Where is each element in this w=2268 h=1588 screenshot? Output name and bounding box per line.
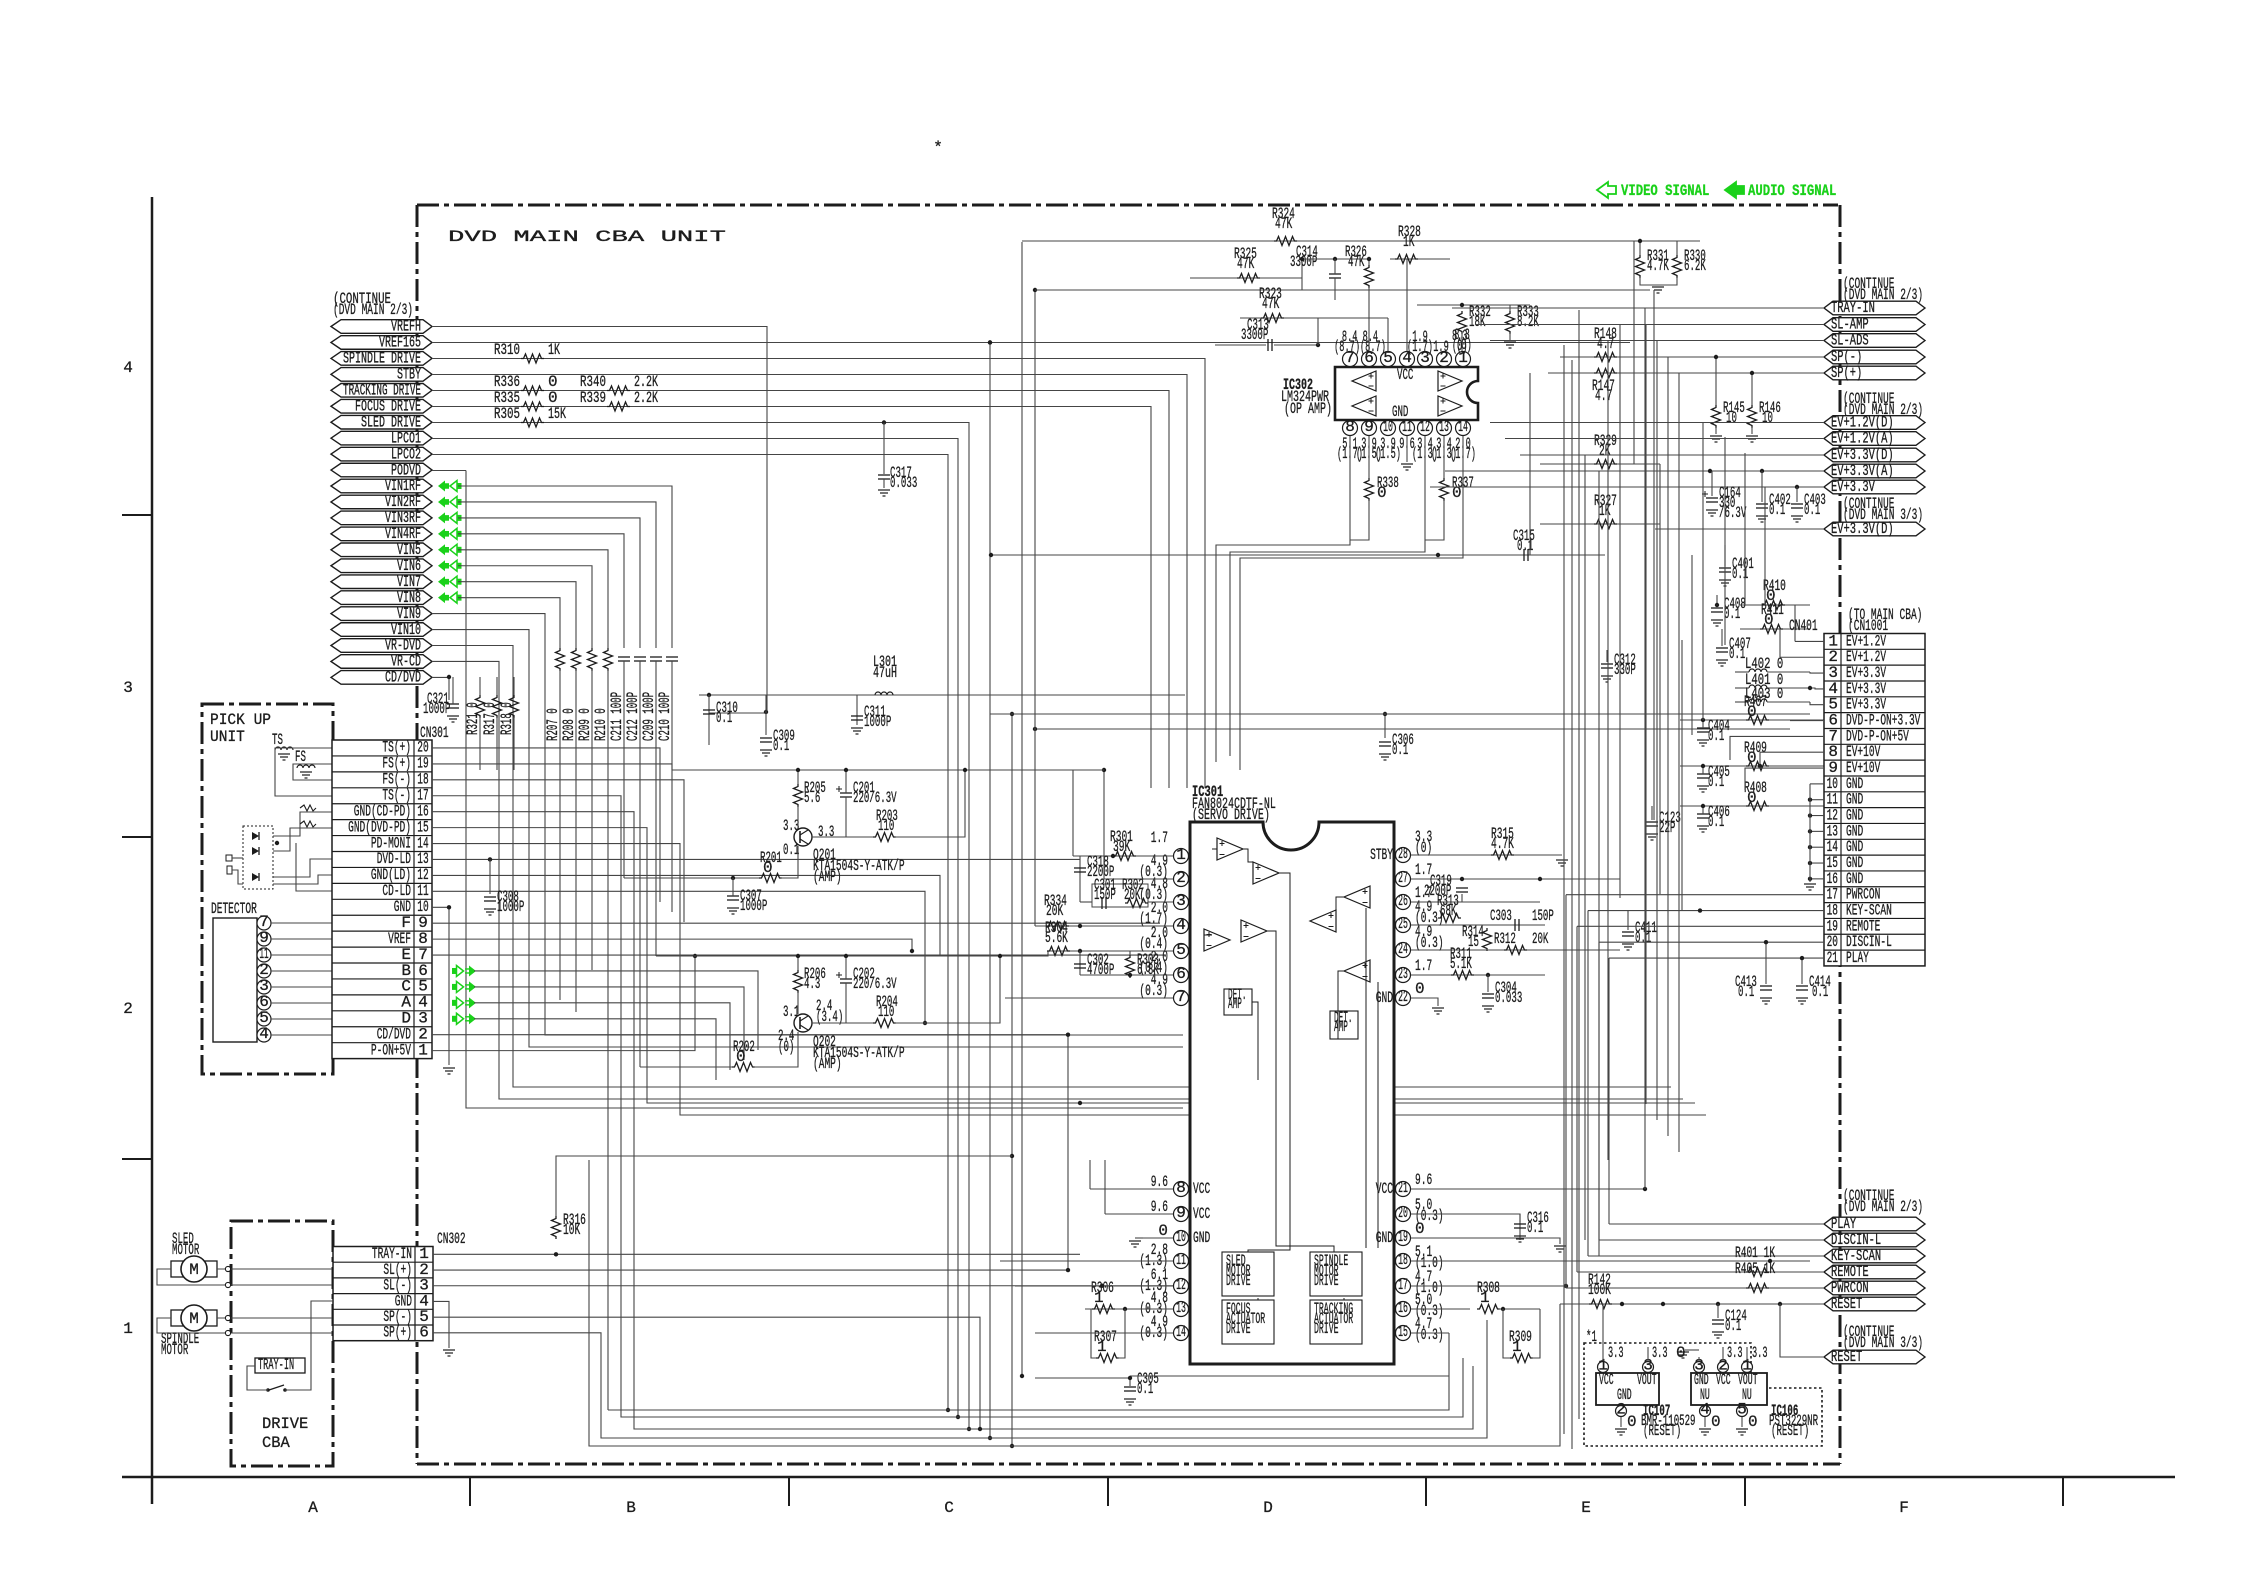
wire pin9 [1105,1213,1173,1215]
node flag PWRCON [1824,1281,1925,1295]
wire rbus-x1703 [1702,422,1704,720]
node flag VIN9 [331,607,432,621]
IC301 pin 26 [1396,895,1411,910]
wire cn401-18 [1588,910,1824,912]
wire pin10 [1143,1237,1173,1239]
IC301 op-amp C [1204,929,1230,951]
wire C316-v [1519,1214,1521,1222]
IC301 pin 22 [1396,991,1411,1006]
frame row tick 4/3 [122,514,152,516]
svg-text:8: 8 [1345,418,1355,436]
svg-text:DVD MAIN CBA UNIT: DVD MAIN CBA UNIT [448,228,726,246]
symbol green arrows CN301 row A [452,1000,457,1006]
wire L401-r [1767,687,1810,689]
wire R204-out [895,956,1000,1023]
IC302 op-amp 1 [1352,371,1376,391]
node junction [1078,949,1082,953]
capacitor C202 220/6.3V [840,978,852,980]
wire pin15 [1411,1332,1449,1334]
IC301 pin 6 [1174,968,1189,983]
node flag SL-AMP [1824,318,1925,332]
svg-text:R405 1K: R405 1K [1735,1260,1775,1278]
wire CN301-13 [432,858,1080,860]
wire R205-up [797,770,799,784]
node junction [1066,1268,1070,1272]
op-amp IC106 PST3229NR body [1691,1373,1767,1405]
node flag RESET (2) [1824,1350,1925,1364]
svg-text:TRAY-IN: TRAY-IN [1831,299,1875,317]
wire CN302-gnd [433,1301,449,1348]
wire R317-up [496,677,498,695]
svg-text:R305: R305 [494,405,520,423]
wire ic106-p1up [1746,1347,1748,1361]
wire SL-ADS-row [1490,340,1824,342]
svg-text:0.033: 0.033 [1495,989,1522,1007]
detector pin 3 [257,980,271,994]
wire cn401-gnd15 [1810,862,1824,864]
svg-text:R318 0: R318 0 [498,702,516,735]
svg-text:1000P: 1000P [423,700,450,718]
wire C305-v [1129,1378,1131,1386]
wire DISCIN-row [1599,1239,1824,1241]
wire highway-1679 [1678,373,1680,1152]
switch TRAY-IN [255,1358,305,1373]
wire CN301-7 [432,954,1165,956]
node flag VIN8 [331,591,432,605]
node flag VR-CD [331,655,432,669]
wire R321-dn [479,717,481,770]
wire R410-row [1740,604,1810,606]
svg-text:12: 12 [1176,1276,1186,1294]
svg-text:6.8K: 6.8K [1137,961,1159,979]
wire R202-out [754,1032,798,1067]
wire C209-cont [655,661,657,956]
wire cn401-gnd12 [1810,815,1824,817]
node junction [1486,973,1490,977]
wire FS-loop [293,764,332,780]
svg-text:4.7: 4.7 [1597,335,1614,353]
wire cn401-gnd13 [1810,830,1824,832]
svg-text:2K: 2K [1599,442,1611,460]
node junction [1750,371,1754,375]
node junction [1708,469,1712,473]
svg-text:0.1: 0.1 [1804,501,1820,519]
wire sled-plus [217,1268,332,1270]
node junction [707,693,711,697]
wire C307-up [732,878,734,896]
wire cn401-1 [1795,640,1824,642]
wire pin8-v [1089,1160,1091,1189]
node junction [998,954,1002,958]
IC302 pin 10 [1381,421,1396,436]
svg-text:1: 1 [1176,846,1186,864]
wire VREFH [432,327,767,714]
node junction [1808,845,1812,849]
svg-text:10K: 10K [563,1221,580,1239]
wire C302-v [1079,951,1081,975]
wire VR-DVD [432,646,1671,1088]
svg-text:(DVD MAIN 2/3): (DVD MAIN 2/3) [1843,1198,1923,1216]
svg-text:17: 17 [1398,1276,1408,1294]
IC301 pin 19 [1396,1231,1411,1246]
wire VR-CD [432,661,1683,1099]
svg-text:14: 14 [1176,1323,1186,1341]
wire p14-dn [1240,436,1463,770]
svg-text:EV+3.3V: EV+3.3V [1831,478,1875,496]
wire pin5 [1048,950,1173,952]
svg-text:20: 20 [1398,1204,1408,1222]
wire C304-v [1487,975,1489,992]
resistor R339 2.2K [607,402,630,411]
IC302 pin 11 [1400,421,1415,436]
wire EV33A-row [1445,470,1824,472]
wire C405-up [1702,766,1704,774]
node junction [1123,1307,1127,1311]
resistor R333 8.2K [1506,311,1515,334]
node flag VIN7 [331,575,432,589]
wire C404-up [1702,720,1704,728]
wire pin6 [1080,974,1173,976]
svg-text:5: 5 [1737,1401,1747,1419]
svg-text:3300P: 3300P [1241,326,1268,344]
node junction [1760,469,1764,473]
wire cn401-8 [1760,752,1824,766]
wire VIN9 [432,614,1183,1035]
node junction [266,1388,270,1392]
wire L403-r [1767,701,1810,703]
node junction [1808,798,1812,802]
wire toprow-ext [1073,769,1104,771]
wire det-3-stub [256,986,258,988]
wire C314-up [1334,259,1336,274]
svg-text:28: 28 [1398,845,1408,863]
svg-text:21: 21 [1398,1179,1408,1197]
node flag DISCIN-L [1824,1233,1925,1247]
resistor R310 1K [521,354,544,363]
svg-text:220/6.3V: 220/6.3V [853,789,897,807]
svg-text:0.1: 0.1 [1137,1380,1153,1398]
node junction [796,768,800,772]
IC301 tracking actuator drive block [1310,1300,1362,1344]
symbol green arrows VIN6 [438,560,449,571]
svg-text:6.2K: 6.2K [1684,257,1706,275]
symbol green arrows CN301 row C [452,984,457,990]
svg-text:0.1: 0.1 [1729,645,1745,663]
node junction [1661,1302,1665,1306]
resistor R204 110 [873,1019,896,1028]
wire rbus-x1645 [1644,308,1646,1189]
node flag TRACKING DRIVE [331,384,432,398]
svg-text:2: 2 [1616,1401,1626,1419]
node junction [978,1427,982,1431]
frame column tick 2 [788,1477,790,1506]
IC301 pin 20 [1396,1207,1411,1222]
wire VIN5 bottom U-loop [608,1333,1449,1410]
svg-text:5.6: 5.6 [804,789,820,807]
svg-text:0: 0 [1415,980,1425,998]
svg-text:4.7: 4.7 [1595,387,1612,405]
wire pin7 [1005,997,1173,999]
wire R411-row [1740,628,1810,630]
wire R338-dn [1350,500,1369,540]
node junction [1701,764,1705,768]
node junction [946,1408,950,1412]
wire CN301-17-U [432,796,1463,1417]
wire ic301-int6 [1336,897,1344,910]
wire det-4-stub [256,1034,258,1036]
wire C403-up [1796,487,1798,502]
node junction [1128,1376,1132,1380]
resistor R146 10 [1748,405,1757,428]
svg-text:8.2K: 8.2K [1517,313,1539,331]
wire rbus-x1564 [1563,345,1565,1434]
node junction [447,905,451,909]
node junction [1715,603,1719,607]
wire VIN4RF-h [458,534,624,648]
wire pd-2 [232,870,243,884]
svg-text:13: 13 [1439,418,1449,436]
node junction [1010,1444,1014,1448]
wire VIN1RF-h [458,486,672,648]
node junction [1128,973,1132,977]
wire C414-up [1801,958,1803,984]
wire highway-1646 [1645,325,1647,1105]
symbol green arrows VIN2RF [438,496,449,507]
junction sled motor connector [225,1266,230,1271]
wire C212-cont [639,661,641,1067]
svg-text:18: 18 [1398,1251,1408,1269]
wire pin11 [1000,1260,1173,1262]
IC301 pin 10 [1174,1231,1189,1246]
IC302 pin 1 [1456,352,1471,367]
node junction [1643,1187,1647,1191]
wire LPCO2 [432,455,948,1411]
wire C305-row [1035,1377,1130,1379]
resistor R326 47K [1365,265,1374,288]
wire C201-up [845,770,847,793]
resistor R318 0 [510,695,519,718]
node SLED-C317 [882,420,886,424]
svg-text:R339: R339 [580,389,606,407]
wire rbus-x1660 [1659,464,1661,894]
wire L403-l [1735,701,1749,703]
svg-text:(RESET): (RESET) [1643,1422,1681,1440]
node flag LPCO1 [331,431,432,445]
svg-text:0.1: 0.1 [716,709,732,727]
IC301 pin 25 [1396,918,1411,933]
node junction [275,841,279,845]
wire cn401-17 [1566,894,1824,896]
wire ic301-int12 [1377,982,1379,1248]
svg-text:26: 26 [1398,892,1408,910]
svg-text:R317 0: R317 0 [481,702,499,735]
wire R337-up [1443,436,1445,478]
wire R207-cont [559,670,561,1000]
wire cn401-gnd10 [1810,783,1824,785]
wire REMOTE-row [1577,1271,1824,1273]
node CD/DVD-j [447,675,451,679]
wire det-7-stub [256,922,258,924]
svg-text:20K: 20K [1046,902,1063,920]
wire cn401-3 [1810,672,1824,673]
wire rbus-x1682 [1681,640,1683,910]
svg-text:4: 4 [123,359,133,377]
wire pd-to-16 [273,812,332,836]
svg-text:12: 12 [1420,418,1430,436]
wire ic301-int5 [1267,931,1334,1252]
svg-text:47K: 47K [1275,215,1292,233]
svg-text:47K: 47K [1348,253,1365,271]
wire CN301-15 [432,828,1695,1103]
svg-text:TS: TS [272,731,283,749]
wire Q202-c [812,1022,873,1024]
wire CN301-GND [432,907,449,1065]
resistor R210 0 [604,648,613,671]
IC106 pin 1 [1742,1362,1753,1373]
svg-text:27: 27 [1398,869,1408,887]
node junction [1460,877,1464,881]
node junction [554,1252,558,1256]
svg-text:0.1: 0.1 [773,737,789,755]
node junction [1333,257,1337,261]
node flag RESET [1824,1297,1925,1311]
IC106 pin 2 [1718,1362,1729,1373]
svg-text:15: 15 [1398,1323,1408,1341]
svg-text:0.1: 0.1 [1724,605,1740,623]
node junction [844,768,848,772]
IC302 pin 14 [1456,421,1471,436]
resistor R209 0 [588,648,597,671]
wire CN301-19 [432,764,672,912]
wire R323-row [1240,317,1388,319]
wire R208-cont [575,670,577,1012]
node flag SL-ADS [1824,334,1925,348]
IC301 pin 9 [1174,1207,1189,1222]
node junction [1764,940,1768,944]
wire C202-up [845,956,847,979]
svg-text:*1: *1 [1586,1328,1597,1346]
wire R202-in [640,1066,732,1068]
svg-text:CN401: CN401 [1789,617,1818,635]
node junction [693,954,697,958]
wire det-9 [271,938,332,940]
wire row-259 [1302,258,1369,260]
wire pin26 [1411,901,1540,903]
svg-text:SP(+): SP(+) [1831,364,1862,382]
detector pin 5 [257,1012,271,1026]
wire REMOTE-v [1576,926,1578,1272]
IC301 pin 18 [1396,1254,1411,1269]
svg-text:22P: 22P [1659,819,1675,837]
wire EV12D-row [1490,422,1824,424]
wire C315-row [991,554,1605,556]
node junction [1033,288,1037,292]
svg-text:4: 4 [259,1025,269,1043]
svg-text:*: * [933,139,943,157]
wire PLAY-row [1609,1223,1824,1225]
svg-text:23: 23 [1398,965,1408,983]
wire highway-1668 [1667,357,1669,1136]
wire C406-up [1702,806,1704,814]
svg-text:(RESET): (RESET) [1771,1422,1809,1440]
wire STBY [432,375,1187,789]
svg-text:(0.3): (0.3) [1415,1326,1444,1344]
svg-text:1: 1 [123,1320,133,1338]
wire C413-up [1765,942,1767,984]
node flag VIN3RF [331,511,432,525]
wire cn401-19 [1577,925,1824,927]
wire SP-plus-long [433,1320,1487,1438]
capacitor C201 220/6.3V [840,792,852,794]
wire R308-out [1499,1308,1540,1310]
wire SL+long [433,1269,1068,1271]
svg-text:RESET: RESET [1831,1295,1862,1313]
svg-text:7: 7 [1176,988,1186,1006]
wire CN301-14 [432,844,1706,1115]
svg-text:F: F [1899,1499,1909,1517]
svg-text:0.1: 0.1 [1708,727,1724,745]
svg-text:(OP AMP): (OP AMP) [1284,400,1332,418]
svg-text:47K: 47K [1237,255,1254,273]
wire R309-out [1532,1309,1540,1358]
svg-text:DRIVE: DRIVE [1226,1272,1251,1290]
wire CN301-20 [432,748,660,902]
wire pd-1 [232,857,243,859]
wire C411-up [1627,910,1629,930]
op-amp IC301 FAN8024CDTF-NL body [1190,822,1394,1364]
svg-text:1000P: 1000P [864,713,891,731]
wire pin2 [1104,878,1173,880]
node flag TRAY-IN [1824,301,1925,315]
IC302 pin 9 [1362,421,1377,436]
svg-text:3: 3 [1176,892,1186,910]
svg-text:VCC: VCC [1193,1180,1210,1198]
frame row tick 3/2 [122,836,152,838]
wire pd-to-13 [273,859,332,877]
node junction [1808,877,1812,881]
wire TRACKING DRIVE [432,391,1169,789]
svg-text:(1.7): (1.7) [1407,338,1433,356]
svg-text:C: C [944,1499,954,1517]
wire pin23 [1411,974,1545,976]
wire det-6-stub [256,1002,258,1004]
resistor R208 0 [572,648,581,671]
wire R33x-dn [1640,277,1677,285]
node junction [1367,257,1371,261]
resistor R202 0 [732,1063,755,1072]
frame bottom border line [122,1476,2175,1479]
wire VIN7-h [458,582,576,648]
resistor R145 10 [1712,405,1721,428]
wire C321-up [452,677,454,704]
svg-text:3.3: 3.3 [1727,1344,1743,1362]
wire pin27 [1411,878,1620,880]
svg-text:FS: FS [295,748,306,766]
wire rbus-x1692 [1691,555,1693,735]
wire R333-up [1509,305,1511,311]
symbol green arrows VIN7 [438,576,449,587]
wire RESET2 [1780,1304,1824,1357]
detector pin 9 [257,932,271,946]
DRIVE CBA box [231,1221,333,1466]
svg-text:TRAY-IN: TRAY-IN [258,1356,294,1374]
wire spindle-plus [217,1317,332,1319]
svg-text:EV+1.2V(A): EV+1.2V(A) [1831,430,1894,448]
svg-text:3.3: 3.3 [783,817,799,835]
wire cn401-2 [1780,656,1824,658]
svg-text:CD/DVD: CD/DVD [385,669,421,687]
wire R333-dn [1509,333,1511,340]
